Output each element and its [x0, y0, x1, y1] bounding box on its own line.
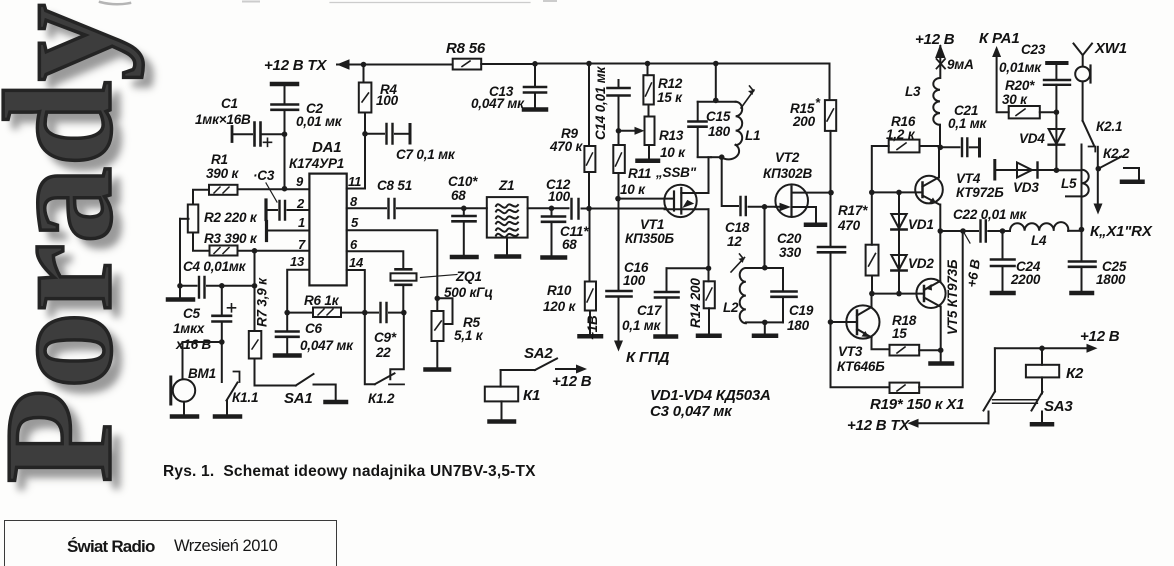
switch SA3: [984, 348, 1074, 424]
capacitor C13: [471, 61, 546, 111]
transistor VT3: [837, 294, 890, 374]
svg-text:0,01 мк: 0,01 мк: [296, 114, 343, 129]
svg-text:R8 56: R8 56: [446, 40, 486, 57]
page top scan artifacts: [100, 1, 556, 4]
node pin13/C6: [284, 310, 290, 316]
node rail tank column: [713, 61, 719, 67]
svg-text:180: 180: [787, 318, 810, 333]
node C5 top: [219, 283, 225, 289]
svg-text:VD1-VD4 КД503А: VD1-VD4 КД503А: [650, 387, 771, 404]
node VT5 base wire left: [869, 291, 875, 297]
resistor R11: [613, 131, 651, 199]
antenna XW1: [1074, 40, 1127, 121]
svg-text:C23: C23: [1021, 42, 1046, 57]
arrow to GPD: [585, 315, 670, 366]
wire Z1 right: [528, 207, 569, 209]
capacitor C12: [546, 177, 665, 219]
svg-text:R10: R10: [547, 283, 572, 298]
resistor R18: [890, 313, 920, 356]
transistor VT4: [915, 147, 1004, 231]
svg-text:х16 В: х16 В: [175, 337, 211, 352]
resistor R3: [204, 231, 258, 256]
wire R2 bottom to R3: [193, 233, 210, 251]
label VD1-VD4 note: [650, 387, 771, 420]
inductor L4: [1010, 222, 1082, 248]
wire R7 bottom to SA1: [255, 359, 296, 386]
inductor L2: [723, 254, 783, 323]
node C1/C2: [282, 131, 288, 137]
svg-text:R7 3,9 к: R7 3,9 к: [255, 277, 270, 327]
wire R20 right: [1040, 111, 1057, 113]
ground left rail: [168, 297, 193, 302]
svg-text:15: 15: [892, 326, 907, 341]
svg-text:0,047 мк: 0,047 мк: [471, 96, 525, 111]
svg-text:C7 0,1 мк: C7 0,1 мк: [396, 147, 456, 162]
svg-text:R12: R12: [658, 76, 683, 91]
node pin9: [282, 186, 288, 192]
relay contact K2.1: [1083, 119, 1123, 152]
svg-text:L5: L5: [1061, 176, 1077, 191]
svg-text:0,047 мк: 0,047 мк: [300, 338, 354, 353]
capacitor C5 electrolytic: [173, 286, 236, 352]
+6V callout: [963, 231, 983, 288]
svg-text:L2: L2: [723, 300, 739, 315]
wire R4 top: [363, 65, 365, 83]
diode VD3: [995, 161, 1057, 196]
svg-text:C10*: C10*: [448, 174, 478, 189]
+12V arrow at SA2: [552, 365, 592, 391]
svg-text:К1.1: К1.1: [232, 390, 258, 405]
wire R1 right to pin 9: [238, 188, 310, 190]
relay coil K2: [1026, 348, 1084, 382]
wire C6 node to R6: [287, 312, 313, 314]
svg-text:C20: C20: [777, 231, 802, 246]
diode VD1: [891, 192, 933, 254]
pin 14 wire: [347, 270, 365, 313]
node VT2 drain: [828, 190, 834, 196]
svg-text:К2.2: К2.2: [1103, 146, 1130, 161]
node VD2 bottom: [896, 291, 902, 297]
svg-text:C17: C17: [637, 303, 663, 318]
node C14/R11 wiper: [616, 128, 622, 134]
node L2 tank bottom / ground: [754, 320, 776, 336]
capacitor C21: [940, 103, 987, 156]
wire R3 right / pin 7: [238, 250, 310, 252]
svg-text:R19* 150 к X1: R19* 150 к X1: [870, 396, 964, 413]
wire rail right of R8: [481, 63, 535, 65]
svg-text:15 к: 15 к: [657, 90, 683, 105]
node below ZQ1: [401, 310, 407, 316]
inductor L3: [905, 78, 940, 147]
potentiometer R13: [638, 105, 697, 181]
resistor R7 vertical: [249, 277, 270, 359]
wire R6 right: [341, 312, 365, 314]
resistor R2: [188, 205, 258, 233]
capacitor C10: [448, 174, 478, 257]
svg-text:7: 7: [298, 237, 306, 252]
svg-text:L4: L4: [1031, 233, 1047, 248]
resistor R8: [446, 40, 486, 70]
svg-text:200: 200: [792, 114, 816, 129]
+12V TX bottom arrow: [847, 417, 989, 434]
+12V TX supply arrow top left: [264, 57, 452, 74]
diode VD2: [891, 255, 934, 294]
relay contact K1.1: [215, 342, 258, 417]
caption: [163, 463, 536, 481]
capacitor C7: [365, 124, 456, 162]
diode VD4: [1019, 112, 1064, 170]
svg-text:+12 В: +12 В: [552, 373, 592, 390]
svg-text:КТ646Б: КТ646Б: [837, 359, 885, 374]
wire C2 column to pin 9: [284, 134, 286, 189]
svg-text:1: 1: [298, 215, 305, 230]
node R14 top: [706, 266, 712, 272]
ground bar above C2: [272, 82, 297, 87]
svg-text:100: 100: [548, 189, 571, 204]
ground VT5 collector: [931, 361, 953, 366]
resistor R6: [304, 293, 341, 317]
wire R15 to VT2 drain node: [830, 131, 832, 193]
svg-text:+12 B TX: +12 B TX: [264, 57, 327, 74]
svg-text:*: *: [815, 95, 821, 110]
svg-text:SA3: SA3: [1044, 398, 1073, 415]
svg-text:XW1: XW1: [1094, 40, 1127, 57]
capacitor C24: [991, 231, 1041, 293]
switch SA2: [501, 345, 557, 370]
svg-text:1800: 1800: [1096, 272, 1126, 287]
left rail stub: [180, 218, 189, 220]
svg-text:5,1 к: 5,1 к: [454, 328, 484, 343]
node C24: [1000, 228, 1006, 234]
svg-text:0,1 мк: 0,1 мк: [622, 318, 662, 333]
svg-text:100: 100: [623, 273, 646, 288]
capacitor C17: [622, 268, 679, 336]
svg-text:Z1: Z1: [498, 178, 514, 193]
node C7 junction: [362, 131, 368, 137]
capacitor C1 electrolytic: [195, 96, 285, 146]
svg-text:BM1: BM1: [188, 366, 216, 381]
svg-text:К PA1: К PA1: [979, 30, 1019, 47]
pin 8 wire with C8: [347, 207, 386, 209]
resistor R19: [870, 383, 964, 413]
wire VT5 base: [872, 293, 924, 295]
svg-text:C8 51: C8 51: [377, 178, 412, 193]
svg-text:R17*: R17*: [838, 203, 868, 218]
svg-text:К2.1: К2.1: [1096, 119, 1122, 134]
svg-text:К„X1"RX: К„X1"RX: [1090, 223, 1153, 240]
node VT3 base column: [828, 319, 834, 325]
svg-text:1,2 к: 1,2 к: [886, 127, 916, 142]
svg-text:6: 6: [350, 237, 358, 252]
svg-text:68: 68: [562, 237, 577, 252]
node rail R4 top: [361, 62, 367, 68]
IC DA1: [289, 139, 364, 285]
crystal ZQ1: [391, 269, 494, 313]
wire rail to R15 corner: [535, 64, 830, 101]
capacitor C23: [999, 42, 1070, 112]
svg-text:VD3: VD3: [1013, 180, 1039, 195]
arrow K X1 RX: [1090, 204, 1153, 241]
resistor R20: [1002, 78, 1040, 118]
svg-text:R13: R13: [659, 128, 684, 143]
node R7 column at C4 wire: [252, 283, 258, 289]
wire VT1 source down: [708, 209, 710, 268]
svg-text:КП302В: КП302В: [763, 166, 813, 181]
capacitor C20: [777, 193, 845, 322]
resistor R15: [790, 95, 836, 131]
svg-text:R20*: R20*: [1005, 78, 1035, 93]
node VD1 top: [896, 190, 902, 196]
node VD3/VD4/L5: [1054, 167, 1060, 173]
svg-text:C4 0,01мк: C4 0,01мк: [183, 259, 247, 274]
svg-text:DA1: DA1: [312, 139, 341, 156]
svg-text:0,01мк: 0,01мк: [999, 60, 1042, 75]
node VT1 gate: [615, 196, 621, 202]
resistor R14: [688, 268, 720, 336]
node tank bottom: [719, 154, 725, 160]
svg-text:30 к: 30 к: [1002, 92, 1028, 107]
capacitor C25: [1069, 230, 1127, 294]
pin 6 wire: [347, 251, 404, 268]
svg-text:470 к: 470 к: [549, 139, 583, 154]
node L2 tank top: [762, 265, 768, 271]
resistor R10: [543, 209, 601, 337]
svg-text:VD4: VD4: [1019, 131, 1045, 146]
svg-text:SA2: SA2: [524, 345, 553, 362]
svg-text:С3 0,047 мк: С3 0,047 мк: [650, 403, 733, 420]
capacitor C14: [593, 65, 630, 140]
svg-text:10 к: 10 к: [660, 145, 686, 160]
svg-text:C5: C5: [183, 306, 201, 321]
left rail vertical: [179, 219, 181, 298]
+12V supply right with 9mA: [915, 31, 974, 78]
svg-text:SA1: SA1: [284, 390, 313, 407]
svg-text:КТ972Б: КТ972Б: [956, 185, 1004, 200]
wire R7 top: [254, 251, 256, 331]
node VT2 gate: [762, 204, 768, 210]
capacitor C22: [953, 207, 1028, 242]
capacitor C6: [275, 313, 354, 356]
resistor R16: [886, 114, 920, 152]
capacitor C16: [607, 260, 649, 344]
+12V wire top right of SA3: [995, 328, 1120, 353]
resistor R12: [643, 61, 683, 105]
relay contact K1.2: [365, 313, 404, 406]
wire tank bottom to C18: [722, 157, 738, 206]
wire R18 right: [919, 349, 941, 351]
node R5 top: [435, 296, 441, 302]
wire to BM1: [183, 342, 222, 379]
transistor VT5: [916, 231, 960, 361]
node C4 left: [177, 283, 183, 289]
svg-text:VT4: VT4: [956, 171, 981, 186]
svg-text:·C3: ·C3: [253, 168, 275, 183]
capacitor C15 branch: [689, 102, 736, 157]
svg-text:К2: К2: [1066, 365, 1084, 382]
svg-text:„SSB": „SSB": [655, 165, 697, 180]
svg-text:180: 180: [708, 124, 731, 139]
Porady vertical banner: [0, 4, 136, 483]
svg-text:VD1: VD1: [908, 217, 934, 232]
relay coil K1: [485, 370, 540, 422]
svg-text:+12 B TX: +12 B TX: [847, 417, 910, 434]
pin 5 wire: [347, 230, 438, 298]
wire C16 column: [618, 199, 620, 290]
svg-text:R11: R11: [628, 166, 651, 181]
svg-text:68: 68: [451, 188, 466, 203]
svg-text:КП350Б: КП350Б: [625, 231, 675, 246]
svg-text:9мА: 9мА: [947, 57, 974, 72]
svg-text:R2 220 к: R2 220 к: [204, 210, 258, 225]
svg-text:0,1 мк: 0,1 мк: [948, 116, 988, 131]
node R9 bottom: [586, 206, 592, 212]
capacitor C3 with pin2/pin1 stubs: [253, 168, 309, 241]
svg-text:L1: L1: [745, 128, 760, 143]
svg-text:R3 390 к: R3 390 к: [204, 231, 258, 246]
svg-text:К ГПД: К ГПД: [626, 349, 670, 366]
node R19 column top: [960, 228, 966, 234]
node emitter junction C22 wire: [938, 228, 944, 234]
JFET VT2: [763, 150, 831, 225]
svg-text:C18: C18: [725, 220, 750, 235]
capacitor C8: [377, 178, 487, 218]
filter Z1: [487, 178, 528, 257]
svg-text:2200: 2200: [1010, 272, 1041, 287]
svg-text:10 к: 10 к: [620, 182, 646, 197]
tank L1/C15 top wire: [715, 64, 717, 101]
svg-text:ZQ1: ZQ1: [455, 269, 482, 284]
svg-text:L3: L3: [905, 84, 921, 99]
wire VT3 collector column to R19: [831, 322, 890, 387]
wire gate to VT1: [618, 198, 672, 200]
svg-text:330: 330: [779, 245, 802, 260]
svg-text:2: 2: [296, 196, 305, 211]
svg-text:13: 13: [290, 254, 305, 269]
capacitor C4: [180, 259, 255, 298]
wiper arrow to R13: [619, 127, 645, 135]
wire VT4 base: [872, 191, 923, 193]
svg-text:К1: К1: [523, 387, 540, 404]
svg-text:5: 5: [351, 215, 359, 230]
tank L2/C19 column: [764, 207, 766, 268]
switch SA1: [284, 374, 346, 407]
capacitor C2: [272, 86, 343, 134]
svg-text:VT2: VT2: [775, 150, 800, 165]
node VT4 collector / C21: [938, 145, 944, 151]
node C5 bottom: [219, 339, 225, 345]
svg-text:C19: C19: [789, 303, 814, 318]
resistor R9: [549, 61, 595, 209]
MOSFET VT1: [625, 185, 709, 246]
node R18/VT5 collector: [938, 347, 944, 353]
svg-text:C14 0,01 мк: C14 0,01 мк: [593, 65, 608, 140]
svg-text:100: 100: [376, 93, 399, 108]
svg-text:~1В: ~1В: [585, 315, 600, 340]
wire VT3 base: [831, 321, 858, 323]
svg-text:8: 8: [350, 194, 358, 209]
svg-text:C1: C1: [221, 96, 238, 111]
K PA1 arrow: [979, 30, 1019, 112]
svg-text:9: 9: [296, 174, 304, 189]
node pin14 column: [362, 310, 368, 316]
svg-text:К174УР1: К174УР1: [289, 156, 344, 171]
inductor L1: [711, 86, 760, 159]
node C23/VD4 column: [1054, 109, 1060, 115]
wire R4 bottom / pin 11: [347, 113, 365, 189]
svg-text:R14 200: R14 200: [688, 278, 703, 328]
svg-text:R6 1к: R6 1к: [304, 293, 340, 308]
svg-text:VT5 КТ973Б: VT5 КТ973Б: [945, 259, 960, 335]
capacitor C19: [772, 268, 814, 333]
resistor R17: [837, 203, 879, 294]
svg-text:К1.2: К1.2: [368, 391, 395, 406]
svg-text:390 к: 390 к: [206, 166, 239, 181]
svg-text:11: 11: [348, 174, 361, 189]
node tank top: [713, 98, 719, 104]
svg-text:+6 В: +6 В: [964, 258, 983, 288]
capacitor C18: [725, 197, 776, 249]
capacitor C9: [365, 303, 404, 360]
svg-text:12: 12: [727, 234, 742, 249]
svg-text:1мк×16В: 1мк×16В: [195, 112, 251, 127]
svg-text:R1: R1: [211, 152, 228, 167]
svg-text:VT3: VT3: [838, 344, 863, 359]
node R7 top: [252, 248, 258, 254]
wire R16 left down to R17: [872, 146, 889, 245]
wire R1 left to R2: [193, 190, 209, 205]
svg-text:VT1: VT1: [640, 217, 664, 232]
svg-text:22: 22: [375, 345, 391, 360]
svg-text:C6: C6: [305, 321, 323, 336]
wire C17 to R14 node: [667, 267, 709, 269]
relay contact K2.2: [1096, 146, 1143, 207]
wire to L5: [1056, 169, 1081, 171]
wire C22: [940, 230, 978, 232]
wire R16 right: [920, 146, 941, 147]
capacitor C11: [542, 206, 589, 258]
svg-text:+12 B: +12 B: [915, 31, 955, 48]
node base VT4 column: [869, 190, 875, 196]
svg-text:470: 470: [837, 218, 861, 233]
wire VT1 drain up to tank: [708, 157, 710, 193]
svg-text:C9*: C9*: [374, 330, 397, 345]
resistor R4: [359, 82, 399, 113]
inductor L5: [1061, 145, 1089, 229]
wire R19 right up to C22 node: [919, 231, 963, 387]
svg-text:14: 14: [349, 255, 364, 270]
svg-text:C15: C15: [706, 109, 731, 124]
microphone BM1: [171, 366, 216, 417]
svg-text:1мкх: 1мкх: [173, 321, 205, 336]
resistor R5: [426, 298, 484, 369]
svg-text:+12 В: +12 В: [1080, 328, 1120, 345]
svg-text:VD2: VD2: [908, 256, 934, 271]
svg-text:120 к: 120 к: [543, 299, 576, 314]
node C25 / RX: [1079, 227, 1085, 233]
resistor R1: [206, 152, 239, 195]
footer box: [4, 520, 337, 566]
pin 13 wire: [287, 270, 309, 313]
svg-text:C22 0,01 мк: C22 0,01 мк: [953, 207, 1028, 222]
